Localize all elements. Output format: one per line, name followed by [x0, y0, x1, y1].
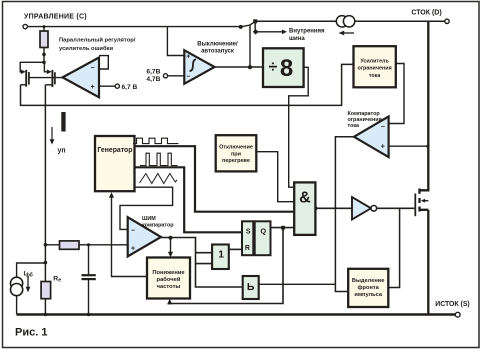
node AND output — [313, 206, 317, 210]
arrow into frequency-reduction top — [168, 252, 173, 258]
wire oscillator dmax line to latch S input — [135, 167, 243, 232]
wire shutdown comparator output — [214, 66, 264, 68]
node current source tap — [44, 261, 48, 265]
svg-text:+: + — [186, 54, 190, 61]
wire T2 drain vertical to Re — [44, 85, 46, 282]
wire error amp plus to 6.7V terminal — [99, 85, 115, 87]
svg-text:+: + — [91, 84, 95, 91]
arrow internal bus label pointer — [282, 30, 287, 35]
svg-text:8: 8 — [280, 55, 293, 82]
block thermal shutdown — [216, 135, 257, 171]
wire oscillator sawtooth to PWM comparator minus — [120, 187, 173, 229]
driver inverter bubble — [371, 206, 377, 212]
wire node A to error-amp comparator plus via x167 — [167, 27, 184, 56]
svg-text:частоты: частоты — [157, 284, 181, 290]
wire capacitor leads — [88, 245, 90, 315]
oscillator waveform sawtooth — [140, 174, 178, 184]
node capacitor top — [87, 243, 90, 246]
svg-text:+: + — [381, 144, 385, 151]
svg-text:Отключение: Отключение — [219, 145, 253, 151]
wire current source Ifb top lead — [17, 263, 46, 277]
wire PWM comparator output — [161, 238, 243, 288]
svg-text:при: при — [231, 151, 241, 157]
terminal CONTROL pin — [23, 24, 27, 28]
label Iup vertical — [61, 112, 65, 132]
wire PWM comparator plus sense line — [89, 244, 128, 246]
oscillator waveform clock — [133, 138, 179, 143]
block divide-by-8 counter — [263, 48, 304, 87]
wire SOURCE rail — [17, 313, 456, 316]
node drain sense junction — [426, 145, 429, 148]
svg-text:Внутренняя: Внутренняя — [289, 29, 325, 35]
node rail Re — [44, 313, 47, 316]
op-amps / comparators — [63, 50, 389, 256]
resistor Re — [41, 282, 51, 299]
terminal SOURCE pin — [455, 312, 460, 317]
gate AND — [294, 182, 315, 235]
block leading edge blanking — [348, 269, 388, 307]
wire PWM output down-arrow branch — [170, 238, 172, 255]
svg-text:компаратор: компаратор — [142, 222, 174, 228]
latch SR left cell — [242, 221, 253, 255]
latch Q right cell — [255, 221, 271, 255]
svg-text:ограничения: ограничения — [357, 66, 391, 72]
svg-text:СТОК (D): СТОК (D) — [411, 10, 441, 17]
wire thermal shutdown output to AND gate — [256, 152, 294, 202]
wire current source Ifb bottom lead — [16, 295, 18, 314]
node divide-by-8 input — [248, 65, 252, 69]
wire Re to source rail — [44, 299, 46, 315]
node control/internal-bus junction — [239, 25, 243, 29]
svg-text:Выделение: Выделение — [352, 278, 385, 284]
svg-text:1: 1 — [218, 249, 224, 260]
wire MOSFET drain vertical — [421, 21, 429, 190]
gate OR 1 — [212, 245, 229, 270]
wire divide-by-8 feed from control line — [249, 25, 251, 67]
terminal 6.7V — [115, 84, 119, 88]
svg-text:Выключение/: Выключение/ — [197, 41, 238, 47]
arrow into oscillator bottom — [109, 192, 114, 198]
wire divide-by-8 output to AND gate — [289, 67, 309, 187]
node resistor-H left — [44, 243, 48, 247]
wire frequency control into oscillator — [112, 194, 148, 277]
wire error amp feedback loop — [99, 56, 108, 69]
driver inverter — [352, 197, 371, 220]
arrow control current Iup — [51, 127, 53, 141]
wire internal bus label line — [257, 31, 283, 33]
wire internal top bus left segment — [255, 20, 336, 22]
terminal DRAIN pin — [445, 19, 449, 23]
terminal 6.7/4.7V — [163, 74, 167, 78]
svg-text:УПРАВЛЕНИЕ (С): УПРАВЛЕНИЕ (С) — [24, 13, 87, 20]
comparator PWM — [128, 217, 161, 256]
svg-text:тока: тока — [348, 123, 361, 129]
current source Ifb — [11, 277, 23, 296]
node below resistor — [42, 53, 46, 57]
node top bus square junction — [253, 19, 257, 23]
block oscillator Генератор — [95, 136, 135, 191]
comparator current limit — [354, 117, 389, 158]
wire horizontal resistor leads — [45, 244, 88, 246]
svg-text:Усилитель: Усилитель — [360, 58, 389, 64]
svg-text:рабочей: рабочей — [157, 276, 181, 283]
svg-text:Iфб: Iфб — [24, 270, 33, 278]
arrow Ifb current direction — [27, 277, 29, 289]
oscillator waveform dmax — [140, 153, 178, 165]
resistor Rz control pin — [40, 31, 48, 48]
block one-shot b — [243, 276, 259, 299]
wire oscillator clock line to AND gate — [135, 146, 295, 212]
svg-text:Генератор: Генератор — [97, 147, 132, 154]
wire resistor Rz feed — [43, 27, 45, 63]
wire OR gate lower input tap — [196, 263, 213, 265]
svg-text:тока: тока — [369, 73, 382, 79]
node control-resistor junction — [43, 25, 46, 28]
node rail capacitor — [87, 313, 90, 316]
svg-text:ИСТОК (S): ИСТОК (S) — [435, 301, 469, 308]
svg-text:−: − — [381, 124, 385, 131]
wire limit-adjust amplifier output to comparator minus — [389, 64, 404, 124]
svg-text:шина: шина — [289, 36, 305, 42]
wire MOSFET source vertical — [421, 210, 429, 315]
svg-text:Параллельный регулятор/: Параллельный регулятор/ — [59, 37, 136, 44]
svg-text:Понижение: Понижение — [152, 270, 185, 276]
svg-text:фронта: фронта — [358, 284, 380, 291]
blocks — [40, 31, 396, 307]
wire internal top bus right segment to DRAIN — [355, 20, 445, 22]
transistor Q output MOSFET — [415, 189, 428, 217]
wire T1 drain long line y105 to limit-adjust amplifier — [21, 64, 354, 105]
wire OR gate upper input tap — [196, 252, 213, 254]
hysteresis symbol in shutdown comparator — [190, 60, 197, 72]
wire comparator output branch to one-shot block — [259, 283, 336, 285]
wire gate line to error amp output — [29, 77, 63, 79]
svg-text:6,7 В: 6,7 В — [122, 84, 138, 91]
wire current-limit comparator output down — [335, 137, 354, 292]
svg-text:усилитель ошибки: усилитель ошибки — [59, 45, 113, 52]
op-amp error amplifier — [63, 58, 100, 98]
arrow internal supply current direction — [341, 32, 354, 34]
svg-text:перегреве: перегреве — [222, 158, 250, 164]
svg-text:ШИМ: ШИМ — [142, 216, 156, 222]
svg-text:импульса: импульса — [354, 292, 383, 298]
node internal bus label junction — [253, 29, 259, 35]
block current limit adjust amplifier — [354, 46, 396, 87]
node PWM output branch — [169, 236, 173, 240]
comparator shutdown/auto-restart — [184, 50, 214, 84]
svg-text:÷: ÷ — [269, 59, 278, 76]
svg-text:Рис. 1: Рис. 1 — [15, 327, 47, 339]
wire CONTROL bus — [27, 26, 240, 28]
svg-text:&: & — [299, 190, 311, 207]
capacitor plates — [82, 275, 96, 279]
wire Q feedback down to frequency-reduction block — [170, 228, 283, 304]
svg-text:R: R — [245, 245, 250, 252]
wire junction jog to internal bus — [241, 21, 256, 32]
svg-text:Q: Q — [260, 226, 266, 235]
comparator input signs — [91, 54, 385, 253]
current source internal supply — [336, 16, 355, 27]
svg-text:−: − — [91, 65, 95, 72]
wire blanking block loop to gate line — [388, 208, 399, 287]
svg-text:S: S — [246, 229, 251, 236]
terminals — [23, 19, 460, 317]
wire current-limit comparator plus to drain sense — [389, 145, 429, 147]
wire OR gate output to latch R — [229, 248, 242, 250]
svg-text:6,7В: 6,7В — [146, 69, 160, 76]
arrow into frequency-reduction bottom — [167, 299, 172, 305]
wire driver output to MOSFET gate — [376, 207, 414, 209]
node A transistor feed — [42, 61, 46, 65]
transistor T2 shunt mirror — [44, 62, 55, 87]
block frequency reduction — [147, 258, 190, 299]
svg-text:−: − — [186, 73, 190, 80]
svg-text:−: − — [131, 228, 135, 235]
svg-text:автозапуск: автозапуск — [201, 49, 234, 55]
resistor horizontal filter — [60, 241, 80, 249]
wire AND gate output to driver — [315, 207, 352, 209]
transistor T1 shunt mirror — [20, 62, 44, 86]
wire latch Q output to AND gate — [271, 227, 295, 229]
wire 4.7V terminal to shutdown comparator minus — [168, 75, 185, 77]
svg-text:уп: уп — [58, 148, 66, 155]
node Q feedback branch — [281, 226, 285, 230]
svg-text:+: + — [131, 246, 135, 253]
svg-text:4,7В: 4,7В — [146, 76, 160, 83]
svg-text:Ь: Ь — [247, 281, 255, 293]
svg-text:Rе: Rе — [53, 275, 61, 283]
